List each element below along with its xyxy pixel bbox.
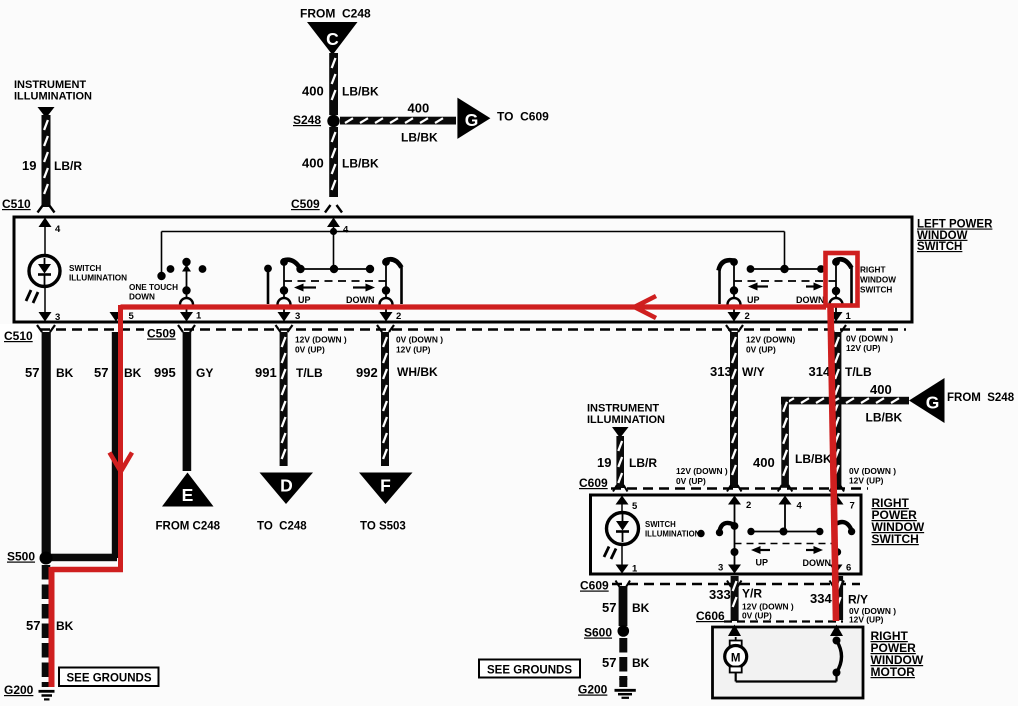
svg-text:57: 57: [25, 365, 39, 380]
svg-text:BK: BK: [632, 601, 650, 615]
svg-text:0V (UP): 0V (UP): [742, 611, 772, 621]
svg-text:SEE GROUNDS: SEE GROUNDS: [487, 665, 572, 677]
svg-text:19: 19: [597, 455, 611, 470]
svg-text:ILLUMINATION: ILLUMINATION: [69, 274, 127, 283]
svg-text:SWITCH: SWITCH: [917, 241, 962, 253]
svg-text:0V (DOWN ): 0V (DOWN ): [846, 334, 893, 344]
svg-text:333: 333: [709, 587, 731, 602]
svg-text:SWITCH: SWITCH: [860, 286, 892, 295]
svg-text:6: 6: [846, 563, 851, 574]
svg-text:LB/BK: LB/BK: [342, 157, 379, 171]
svg-text:FROM C248: FROM C248: [300, 7, 371, 21]
svg-text:3: 3: [295, 311, 300, 322]
svg-text:314: 314: [809, 364, 831, 379]
svg-text:0V (DOWN ): 0V (DOWN ): [849, 466, 896, 476]
svg-text:LB/R: LB/R: [54, 159, 82, 173]
svg-text:1: 1: [632, 564, 638, 575]
svg-text:5: 5: [632, 501, 638, 512]
svg-text:W/Y: W/Y: [742, 365, 765, 379]
svg-text:LB/BK: LB/BK: [795, 452, 832, 466]
svg-text:57: 57: [26, 618, 40, 633]
svg-text:G: G: [465, 110, 479, 130]
svg-text:C510: C510: [2, 197, 31, 211]
svg-text:D: D: [280, 476, 293, 496]
svg-text:4: 4: [797, 501, 803, 512]
svg-text:FROM S248: FROM S248: [947, 392, 1015, 404]
svg-text:G200: G200: [4, 683, 34, 697]
svg-text:12V (UP): 12V (UP): [849, 615, 884, 625]
svg-text:4: 4: [343, 225, 349, 236]
svg-text:1: 1: [846, 311, 852, 322]
svg-text:UP: UP: [298, 295, 311, 305]
svg-text:LB/BK: LB/BK: [866, 411, 903, 425]
svg-text:3: 3: [718, 563, 723, 574]
svg-text:ILLUMINATION: ILLUMINATION: [645, 530, 701, 539]
svg-text:DOWN: DOWN: [803, 558, 832, 568]
svg-text:400: 400: [753, 455, 775, 470]
svg-text:400: 400: [408, 101, 430, 116]
svg-text:C: C: [326, 29, 339, 49]
svg-text:GY: GY: [196, 366, 213, 380]
svg-text:DOWN: DOWN: [129, 293, 155, 302]
svg-text:INSTRUMENT: INSTRUMENT: [587, 403, 659, 415]
svg-text:12V (DOWN ): 12V (DOWN ): [676, 466, 728, 476]
svg-text:ILLUMINATION: ILLUMINATION: [587, 414, 665, 426]
svg-text:SWITCH: SWITCH: [872, 532, 919, 546]
svg-text:WINDOW: WINDOW: [917, 230, 968, 242]
svg-text:12V (UP): 12V (UP): [849, 476, 884, 486]
svg-text:992: 992: [356, 365, 378, 380]
svg-text:UP: UP: [747, 295, 760, 305]
svg-text:G200: G200: [578, 683, 608, 697]
svg-text:LB/BK: LB/BK: [401, 131, 438, 145]
svg-text:RIGHT: RIGHT: [860, 266, 885, 275]
svg-text:SEE GROUNDS: SEE GROUNDS: [67, 673, 152, 685]
svg-text:T/LB: T/LB: [296, 366, 323, 380]
svg-text:400: 400: [302, 84, 324, 99]
svg-text:2: 2: [396, 311, 401, 322]
svg-text:5: 5: [129, 311, 135, 322]
svg-text:7: 7: [850, 501, 855, 512]
svg-text:TO S503: TO S503: [360, 521, 406, 533]
svg-text:BK: BK: [56, 619, 74, 633]
svg-text:400: 400: [302, 156, 324, 171]
svg-text:12V (UP): 12V (UP): [846, 343, 881, 353]
svg-text:ILLUMINATION: ILLUMINATION: [14, 91, 92, 103]
svg-text:C609: C609: [579, 476, 608, 490]
svg-text:LB/R: LB/R: [629, 456, 657, 470]
svg-text:LB/BK: LB/BK: [342, 85, 379, 99]
svg-text:S500: S500: [7, 550, 35, 564]
svg-text:C609: C609: [580, 579, 609, 593]
svg-text:SWITCH: SWITCH: [645, 520, 676, 529]
svg-text:R/Y: R/Y: [848, 593, 868, 607]
svg-text:C606: C606: [696, 609, 725, 623]
svg-text:2: 2: [745, 311, 750, 322]
svg-text:UP: UP: [756, 558, 769, 568]
svg-text:995: 995: [154, 365, 176, 380]
svg-text:C510: C510: [4, 329, 33, 343]
svg-text:BK: BK: [632, 656, 650, 670]
svg-text:LEFT POWER: LEFT POWER: [917, 219, 993, 231]
svg-text:E: E: [182, 485, 194, 505]
svg-text:MOTOR: MOTOR: [871, 665, 916, 679]
svg-text:19: 19: [22, 158, 36, 173]
svg-text:DOWN: DOWN: [346, 295, 375, 305]
svg-text:S248: S248: [293, 113, 321, 127]
svg-text:G: G: [926, 393, 940, 413]
svg-text:313: 313: [710, 364, 732, 379]
svg-text:TO C248: TO C248: [257, 521, 307, 533]
svg-text:TO C609: TO C609: [497, 110, 549, 124]
svg-text:C509: C509: [147, 327, 176, 341]
svg-text:334: 334: [810, 591, 832, 606]
svg-text:WH/BK: WH/BK: [397, 365, 438, 379]
svg-text:ONE TOUCH: ONE TOUCH: [129, 283, 178, 292]
svg-text:0V (UP): 0V (UP): [295, 345, 325, 355]
svg-text:12V (UP): 12V (UP): [396, 345, 431, 355]
svg-text:4: 4: [55, 224, 61, 235]
svg-text:BK: BK: [56, 366, 74, 380]
svg-text:S600: S600: [584, 626, 612, 640]
svg-text:FROM C248: FROM C248: [156, 521, 221, 533]
svg-text:1: 1: [196, 311, 202, 322]
svg-text:0V (UP): 0V (UP): [676, 476, 706, 486]
svg-text:M: M: [731, 653, 741, 665]
svg-text:400: 400: [870, 382, 892, 397]
svg-text:0V (DOWN ): 0V (DOWN ): [396, 335, 443, 345]
svg-text:DOWN: DOWN: [796, 295, 825, 305]
svg-text:57: 57: [602, 655, 616, 670]
svg-text:INSTRUMENT: INSTRUMENT: [14, 79, 86, 91]
svg-text:Y/R: Y/R: [742, 587, 762, 601]
svg-text:12V (DOWN): 12V (DOWN): [746, 335, 796, 345]
svg-text:12V (DOWN ): 12V (DOWN ): [295, 335, 347, 345]
svg-text:991: 991: [255, 365, 277, 380]
svg-text:2: 2: [746, 500, 751, 511]
svg-text:WINDOW: WINDOW: [860, 276, 896, 285]
svg-text:T/LB: T/LB: [845, 365, 872, 379]
svg-text:BK: BK: [124, 366, 142, 380]
svg-text:3: 3: [55, 312, 60, 323]
svg-text:0V (UP): 0V (UP): [746, 345, 776, 355]
svg-text:C509: C509: [291, 197, 320, 211]
svg-text:57: 57: [602, 600, 616, 615]
svg-text:F: F: [380, 476, 391, 496]
svg-text:57: 57: [94, 365, 108, 380]
svg-text:SWITCH: SWITCH: [69, 264, 101, 273]
